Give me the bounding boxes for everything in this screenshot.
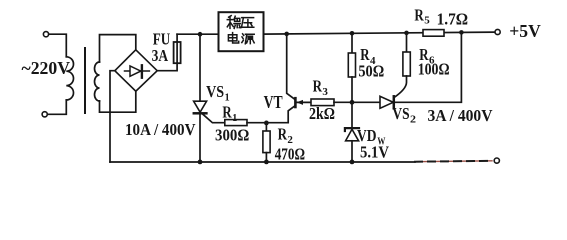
terminal: AC input top — [43, 32, 48, 37]
wire: bridge negative to bottom rail — [110, 71, 115, 162]
zener VDW cathode bar — [345, 128, 359, 131]
transistor VT base arrow — [296, 100, 303, 105]
thyristor VS1 cathode lead — [199, 113, 201, 162]
wire: VT base to R3 — [296, 101, 311, 103]
wire: R6 bottom to VS2 gate — [394, 76, 406, 97]
bridge internal diode lead — [125, 70, 150, 72]
svg-text:50Ω: 50Ω — [358, 62, 384, 81]
resistor R6 body — [403, 52, 410, 76]
transistor VT bar — [294, 98, 297, 107]
terminal: AC input bottom — [42, 112, 47, 117]
fuse FU — [174, 42, 181, 63]
wire: R2 top lead — [265, 123, 267, 131]
svg-text:1: 1 — [232, 112, 237, 124]
glyph 稳 — [227, 16, 240, 29]
wire: bottom rail — [110, 161, 415, 163]
svg-text:VS: VS — [392, 104, 409, 123]
resistor R5 body — [423, 30, 444, 37]
svg-text:300Ω: 300Ω — [215, 126, 249, 145]
junction dot VS1 bottom — [198, 160, 203, 165]
wire: bottom rail dashes — [415, 160, 492, 163]
transistor VT emitter lead — [266, 106, 295, 123]
transformer T primary winding — [66, 57, 73, 100]
resistor R2 body — [263, 131, 270, 153]
wire: R2 bottom lead — [265, 153, 267, 162]
junction dot R4 bottom / VDW top — [350, 100, 355, 105]
junction dot VS1 top — [198, 32, 203, 37]
svg-text:R: R — [414, 6, 424, 25]
bridge rectifier diamond — [115, 50, 157, 91]
svg-text:VT: VT — [264, 92, 283, 112]
junction dot R4 top — [350, 31, 355, 36]
wire: primary bottom lead — [47, 100, 66, 114]
thyristor VS2 cathode bar — [393, 96, 396, 108]
junction dot R2 bottom — [264, 160, 269, 165]
wire: top rail right segment — [264, 32, 495, 34]
resistor R3 body — [311, 99, 334, 106]
junction dot R1/R2/VT emitter — [264, 121, 269, 126]
svg-text:R: R — [222, 102, 232, 121]
junction dot VT collector — [284, 32, 289, 37]
svg-text:2: 2 — [410, 113, 417, 125]
svg-text:3A / 400V: 3A / 400V — [428, 106, 494, 125]
wire: R4 top lead — [351, 33, 353, 53]
svg-text:5: 5 — [424, 14, 430, 26]
box: regulated power supply 稳压电源 — [219, 12, 264, 51]
junction dot R5 right / VS2 top — [459, 30, 464, 35]
wire: secondary bottom to bridge bottom vertex — [100, 91, 136, 112]
wire: R3 to VS2 anode — [334, 101, 380, 103]
thyristor VS1 cathode bar — [194, 112, 207, 115]
svg-text:3A: 3A — [152, 46, 169, 65]
svg-text:VS: VS — [206, 82, 224, 101]
wire: top rail left segment — [177, 33, 219, 35]
svg-text:R: R — [278, 125, 288, 144]
svg-text:470Ω: 470Ω — [275, 145, 305, 164]
resistor R1 body — [225, 120, 247, 126]
wire: R1 right lead — [247, 122, 266, 124]
transformer T secondary winding — [95, 62, 100, 101]
svg-text:+5V: +5V — [509, 21, 541, 41]
glyph 电 — [228, 33, 238, 43]
svg-text:R: R — [313, 77, 323, 96]
svg-text:100Ω: 100Ω — [418, 60, 450, 79]
wire: bridge positive to fuse — [157, 34, 177, 70]
zener VDW triangle — [346, 129, 359, 141]
resistor R4 body — [348, 53, 355, 77]
thyristor VS2 triangle — [380, 96, 393, 108]
wire: bottom rail faded segment — [415, 160, 492, 163]
thyristor VS1 gate lead — [203, 114, 225, 123]
bridge internal diode triangle — [130, 66, 141, 76]
junction dot R6 top — [404, 31, 409, 36]
wire: secondary top to bridge top vertex — [100, 35, 136, 62]
thyristor VS1 anode lead — [199, 34, 201, 101]
wire: R4 bottom lead — [351, 77, 353, 102]
terminal: output common — [494, 158, 499, 163]
wire: VS2 cathode to output rail — [394, 32, 462, 102]
svg-text:5.1V: 5.1V — [360, 142, 390, 161]
transistor VT collector lead — [287, 34, 295, 100]
wire: primary top lead — [49, 34, 67, 57]
terminal: +5V output — [495, 29, 500, 34]
svg-text:1.7Ω: 1.7Ω — [437, 10, 469, 29]
wire: R6 top lead — [406, 33, 408, 52]
bridge internal diode cathode bar — [141, 65, 143, 77]
svg-text:2kΩ: 2kΩ — [309, 104, 335, 123]
glyph 源 — [242, 34, 254, 44]
junction dot VDW bottom — [350, 160, 355, 165]
wire: VDW top lead — [351, 102, 353, 127]
glyph 压 — [242, 18, 254, 28]
svg-text:~220V: ~220V — [22, 58, 71, 78]
thyristor VS1 triangle — [194, 101, 207, 112]
svg-text:10A / 400V: 10A / 400V — [125, 120, 196, 139]
svg-text:3: 3 — [322, 86, 328, 98]
zener VDW anode lead — [351, 141, 353, 162]
transformer core — [84, 48, 86, 113]
